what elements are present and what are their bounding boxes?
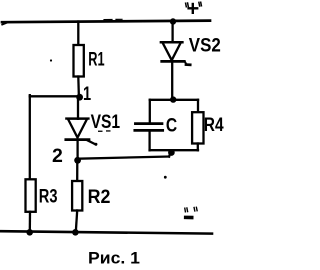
svg-text:VS2: VS2 bbox=[189, 34, 221, 56]
svg-text:1: 1 bbox=[83, 83, 91, 105]
svg-text:R3: R3 bbox=[39, 186, 58, 208]
svg-text:C: C bbox=[166, 115, 177, 137]
svg-text:R1: R1 bbox=[88, 48, 104, 70]
svg-text:R2: R2 bbox=[88, 186, 111, 208]
svg-text:R4: R4 bbox=[204, 114, 224, 136]
svg-text:VS1: VS1 bbox=[91, 111, 121, 133]
svg-text:2: 2 bbox=[52, 145, 63, 167]
svg-text:Рис. 1: Рис. 1 bbox=[88, 248, 140, 267]
